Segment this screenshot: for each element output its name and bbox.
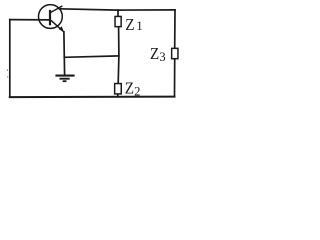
svg-text:2: 2 <box>134 84 140 98</box>
svg-text:Z: Z <box>125 79 134 98</box>
wire Z1 top stub <box>117 10 119 16</box>
svg-text:Z: Z <box>125 15 134 34</box>
svg-text:3: 3 <box>159 50 165 64</box>
svg-text:Z: Z <box>150 44 159 63</box>
wire left side <box>9 20 11 98</box>
impedance Z2 box <box>115 84 122 94</box>
wire Z2 bottom stub <box>117 94 119 97</box>
speck noise near left wire <box>7 69 8 71</box>
wire right side upper <box>174 10 176 48</box>
ground <box>55 57 74 81</box>
wire base lead <box>10 19 50 21</box>
transistor Q1 <box>39 5 64 32</box>
label Z1 <box>125 15 143 34</box>
impedance Z3 box <box>172 48 178 58</box>
wire emitter vertical <box>63 32 65 57</box>
wire right side lower <box>174 59 176 97</box>
label Z2 <box>125 79 141 99</box>
svg-text:1: 1 <box>136 18 143 33</box>
label Z3 <box>150 44 166 64</box>
wire top <box>60 9 176 10</box>
wire bottom <box>10 96 175 99</box>
wire middle (emitter node to Z column) <box>64 56 119 57</box>
impedance Z1 box <box>115 16 121 26</box>
wire Z1 bottom to Z2 top <box>117 27 120 83</box>
